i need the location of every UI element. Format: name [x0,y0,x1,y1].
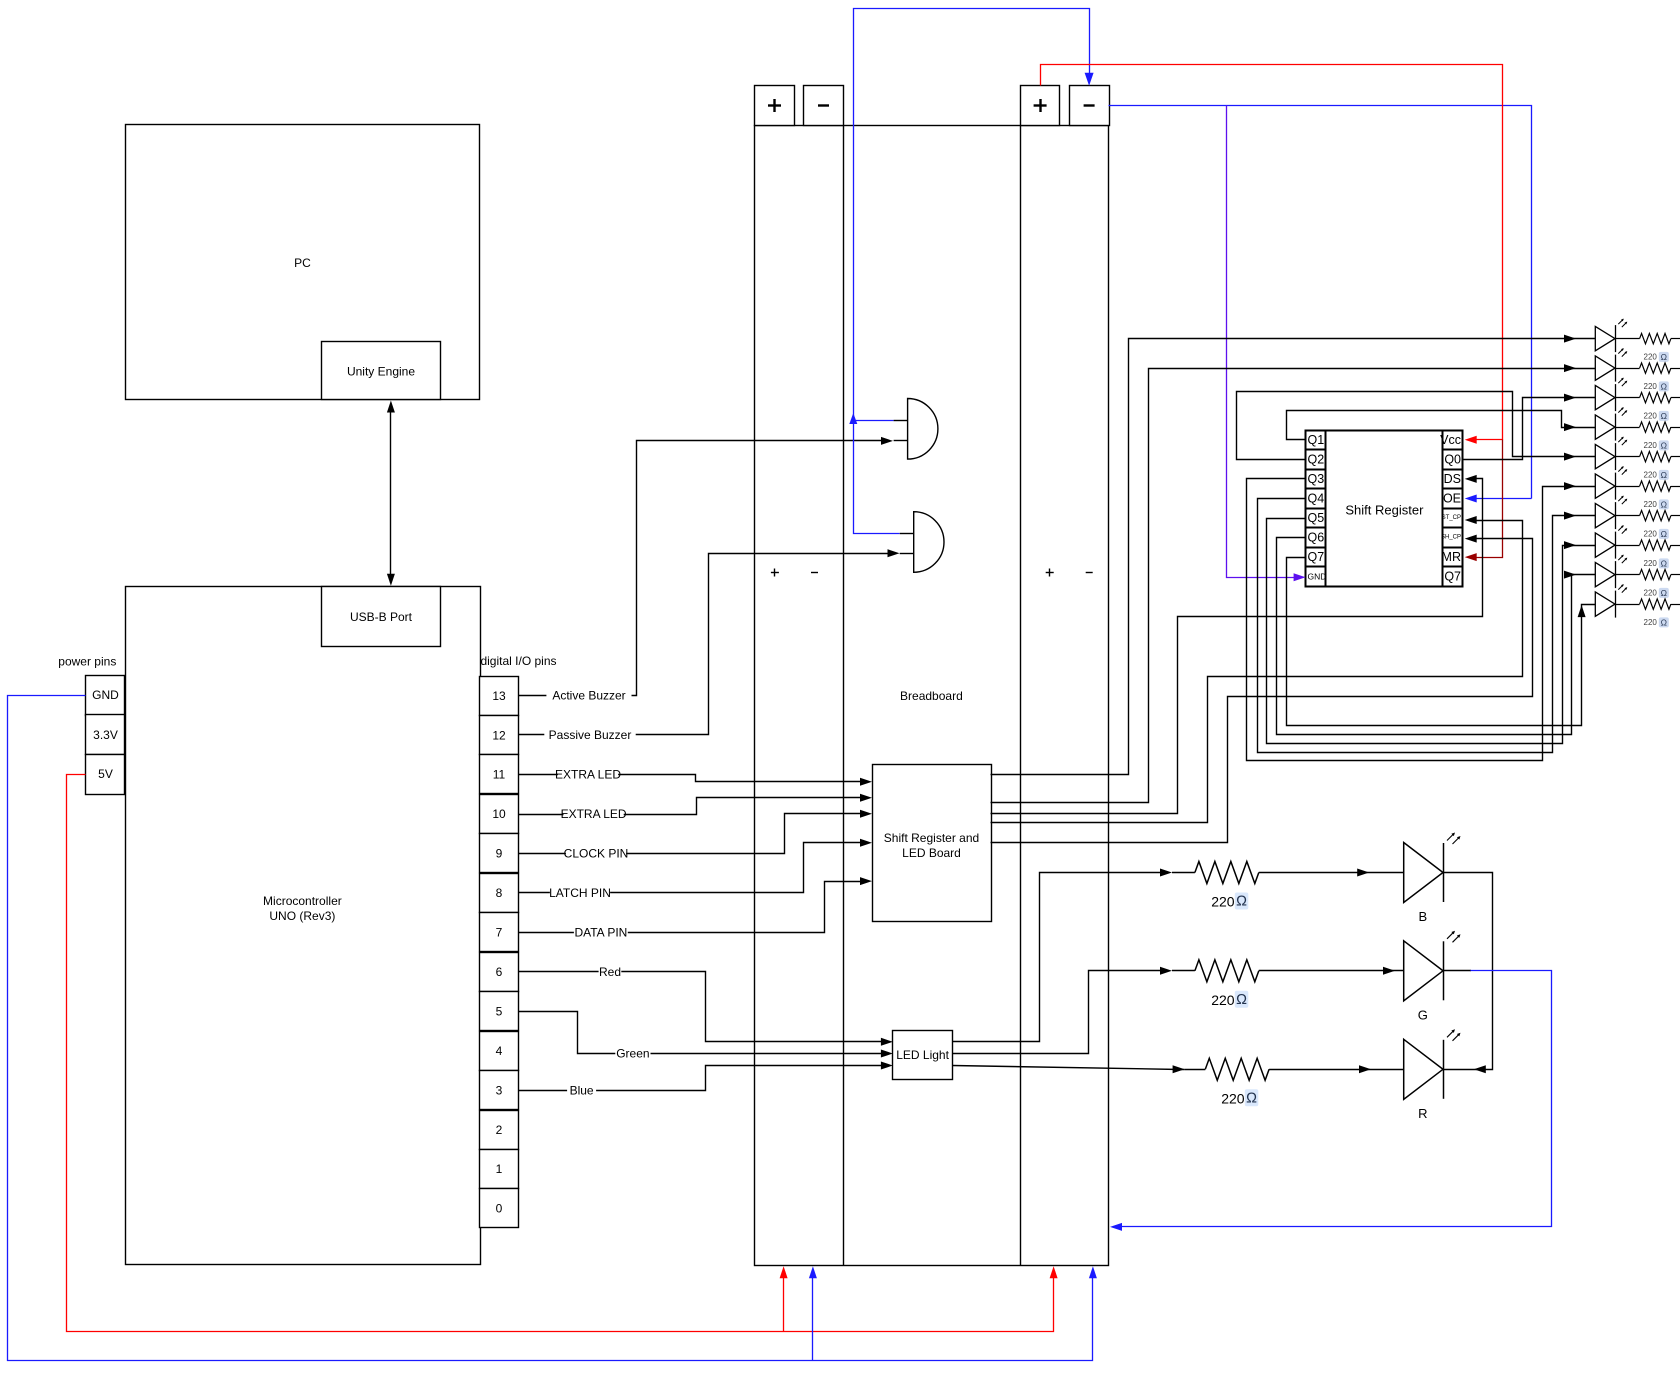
svg-text:Ω: Ω [1661,381,1667,391]
svg-text:LATCH PIN: LATCH PIN [549,886,611,900]
svg-text:13: 13 [492,689,506,703]
wire Q3 to LED6 [1247,479,1596,761]
svg-text:220: 220 [1644,352,1658,361]
resistor R6 220 ohm [1615,486,1639,488]
svg-text:MR: MR [1442,550,1461,564]
wire SR board to LED2 [991,369,1596,803]
wire blue buzzer1 branch [854,420,894,422]
wire SR board to ST_CP [991,521,1523,823]
svg-text:Ω: Ω [1661,499,1667,509]
rail box - right [1070,86,1110,126]
+ glyph right rail [1034,104,1047,106]
wire pin8 LATCH PIN [519,843,867,893]
pin GND [86,676,125,716]
svg-text:Ω: Ω [1661,529,1667,539]
breadboard rail divider left [843,125,845,1266]
wire G cathode blue return to breadboard [1443,970,1471,972]
- glyph left rail [818,104,829,106]
wire pin5 Green [519,1012,887,1054]
wire LED Light to B [953,873,1167,1042]
svg-text:220: 220 [1644,529,1658,538]
LED G [1404,941,1443,1001]
wire blue buzzers to right minus rail [854,9,1090,534]
resistor R7 220 ohm [1615,515,1639,517]
svg-text:11: 11 [493,768,506,782]
wire pin13 Active Buzzer [519,441,889,696]
svg-text:6: 6 [496,965,503,979]
svg-text:CLOCK PIN: CLOCK PIN [564,846,629,860]
wire blue GND to breadboard minus rails [8,696,1093,1361]
svg-text:Q0: Q0 [1444,452,1461,466]
svg-text:Ω: Ω [1236,992,1247,1008]
wire pin3 Blue [519,1066,887,1091]
svg-text:LED Light: LED Light [896,1048,949,1062]
LED D1 [1595,326,1615,350]
wire blue branch left minus rail [812,1271,814,1361]
svg-text:Ω: Ω [1236,894,1247,910]
Unity Engine box [322,342,441,400]
svg-text:Ω: Ω [1246,1090,1257,1106]
svg-text:220: 220 [1644,441,1658,450]
svg-text:LED Board: LED Board [902,846,961,860]
svg-text:3.3V: 3.3V [93,728,118,742]
resistor RR 220 ohm [1205,1058,1269,1080]
svg-text:OE: OE [1443,491,1461,505]
pin 5V [86,755,125,795]
LED D4 [1595,415,1615,439]
wire pin9 CLOCK PIN [519,814,867,854]
svg-text:5V: 5V [98,767,113,781]
svg-text:Ω: Ω [1661,352,1667,362]
svg-text:GND: GND [92,688,119,702]
svg-text:220: 220 [1211,992,1235,1008]
LED D6 [1595,474,1615,498]
svg-text:Breadboard: Breadboard [900,689,963,703]
resistor R2 220 ohm [1615,368,1639,370]
svg-text:7: 7 [496,926,503,940]
svg-text:220: 220 [1644,382,1658,391]
resistor R1 220 ohm [1615,338,1639,340]
svg-text:4: 4 [496,1044,503,1058]
svg-text:SH_CP: SH_CP [1441,535,1461,541]
LED D7 [1595,503,1615,527]
wire Q4 to LED7 [1258,499,1596,753]
svg-text:Q5: Q5 [1308,511,1325,525]
wire red 5V to breadboard plus rails [67,775,1054,1332]
svg-text:9: 9 [496,847,503,861]
pin 3.3V [86,715,125,755]
svg-text:Green: Green [616,1047,649,1061]
+ glyph left rail [768,104,781,106]
wire pin7 DATA PIN [519,882,867,933]
LED D10 [1595,592,1615,616]
resistor R10 220 ohm [1615,604,1639,606]
svg-text:Red: Red [599,965,621,979]
LED D9 [1595,562,1615,586]
svg-text:R: R [1418,1106,1427,1121]
svg-text:220: 220 [1644,618,1658,627]
svg-text:Blue: Blue [570,1084,594,1098]
wire Q0 to LED3 [1463,398,1596,460]
small + - labels mid rails [771,572,779,574]
shift register and LED board box [873,765,992,922]
- glyph right rail [1084,104,1095,106]
svg-text:Passive Buzzer: Passive Buzzer [549,728,632,742]
LED D8 [1595,533,1615,557]
resistor RG 220 ohm [1195,960,1259,982]
breadboard outline [755,126,1109,1266]
svg-text:EXTRA LED: EXTRA LED [561,807,627,821]
svg-text:220: 220 [1644,470,1658,479]
svg-text:Ω: Ω [1661,440,1667,450]
svg-text:Q6: Q6 [1308,531,1325,545]
svg-text:DS: DS [1444,472,1461,486]
svg-text:220: 220 [1644,559,1658,568]
wire pin10 EXTRA LED [519,798,867,815]
svg-text:220: 220 [1644,411,1658,420]
USB-B Port box [322,587,441,647]
svg-text:Active Buzzer: Active Buzzer [552,689,625,703]
svg-text:Ω: Ω [1661,588,1667,598]
LED R [1404,1039,1443,1099]
wire Q2 to LED5 [1237,392,1596,460]
shift register IC U1 [1306,431,1463,587]
wire purple minus to IC GND [1227,106,1299,578]
LED B [1404,843,1443,903]
LED D2 [1595,356,1615,380]
wire Q6 to LED9 [1277,538,1596,735]
svg-text:8: 8 [496,886,503,900]
rail box + right [1021,86,1060,126]
wire SR board to DS [991,479,1483,814]
svg-text:PC: PC [294,256,311,270]
svg-text:Shift Register and: Shift Register and [884,831,979,845]
wire Q5 to LED8 [1267,519,1596,744]
svg-text:UNO (Rev3): UNO (Rev3) [269,909,335,923]
svg-text:Vcc: Vcc [1440,433,1461,447]
wire Q7 to LED10 [1287,558,1596,726]
wire red plus rail to Vcc [1041,65,1503,440]
wire pin12 Passive Buzzer [519,554,895,735]
svg-text:Ω: Ω [1661,411,1667,421]
svg-text:5: 5 [496,1004,503,1018]
svg-text:EXTRA LED: EXTRA LED [555,768,621,782]
LED D3 [1595,385,1615,409]
LED D5 [1595,444,1615,468]
svg-text:USB-B Port: USB-B Port [350,610,413,624]
svg-text:Ω: Ω [1661,470,1667,480]
wire LED Light to G [953,971,1167,1054]
breadboard rail divider right [1020,125,1022,1266]
wire SR board to LED1 [991,339,1596,775]
wire pin6 Red [519,972,887,1042]
svg-text:220: 220 [1644,588,1658,597]
wire dark red to MR [1471,440,1503,558]
svg-text:Ω: Ω [1661,617,1667,627]
svg-text:ST_CP: ST_CP [1442,515,1461,521]
svg-text:GND: GND [1308,572,1327,582]
svg-text:0: 0 [496,1202,503,1216]
buzzer passive (bottom) [914,512,944,573]
LED Light box [893,1031,953,1080]
svg-text:Q7: Q7 [1444,570,1461,584]
PC box [126,125,480,400]
wire LED Light to R [953,1066,1185,1070]
svg-text:G: G [1418,1007,1428,1022]
svg-text:Shift Register: Shift Register [1345,503,1424,518]
wire pin11 EXTRA LED [519,775,867,782]
svg-text:power pins: power pins [58,655,116,669]
svg-text:Microcontroller: Microcontroller [263,894,342,908]
resistor R8 220 ohm [1615,545,1639,547]
svg-text:Q1: Q1 [1308,433,1325,447]
wire B cathode down to R [1444,873,1493,1070]
svg-text:3: 3 [496,1083,503,1097]
svg-text:B: B [1418,909,1427,924]
wire Q1 to LED4 [1287,411,1596,440]
svg-text:1: 1 [496,1162,503,1176]
digital pins 13..0 [480,677,519,716]
svg-text:12: 12 [492,728,506,742]
rail box - left [804,86,844,126]
svg-text:2: 2 [496,1123,503,1137]
svg-text:220: 220 [1211,894,1235,910]
buzzer active (top) [908,399,938,460]
svg-text:Q7: Q7 [1308,550,1325,564]
resistor R9 220 ohm [1615,574,1639,576]
rail box + left [755,86,795,126]
resistor R5 220 ohm [1615,456,1639,458]
svg-text:Ω: Ω [1661,558,1667,568]
resistor R4 220 ohm [1615,427,1639,429]
wire USB link [390,405,392,583]
wire red branch left plus rail [783,1271,785,1332]
microcontroller UNO box [126,587,481,1265]
svg-text:Q4: Q4 [1308,491,1325,505]
svg-text:10: 10 [492,807,506,821]
resistor RB 220 ohm [1195,862,1259,884]
svg-text:digital I/O pins: digital I/O pins [480,654,556,668]
wire SR board to SH_CP [991,539,1533,843]
svg-text:220: 220 [1221,1090,1245,1106]
svg-text:Q3: Q3 [1308,472,1325,486]
svg-text:Unity Engine: Unity Engine [347,365,415,379]
wire blue minus rail to OE [1109,106,1532,499]
svg-text:Q2: Q2 [1308,452,1325,466]
svg-text:DATA PIN: DATA PIN [574,925,627,939]
resistor R3 220 ohm [1615,397,1639,399]
svg-text:220: 220 [1644,500,1658,509]
